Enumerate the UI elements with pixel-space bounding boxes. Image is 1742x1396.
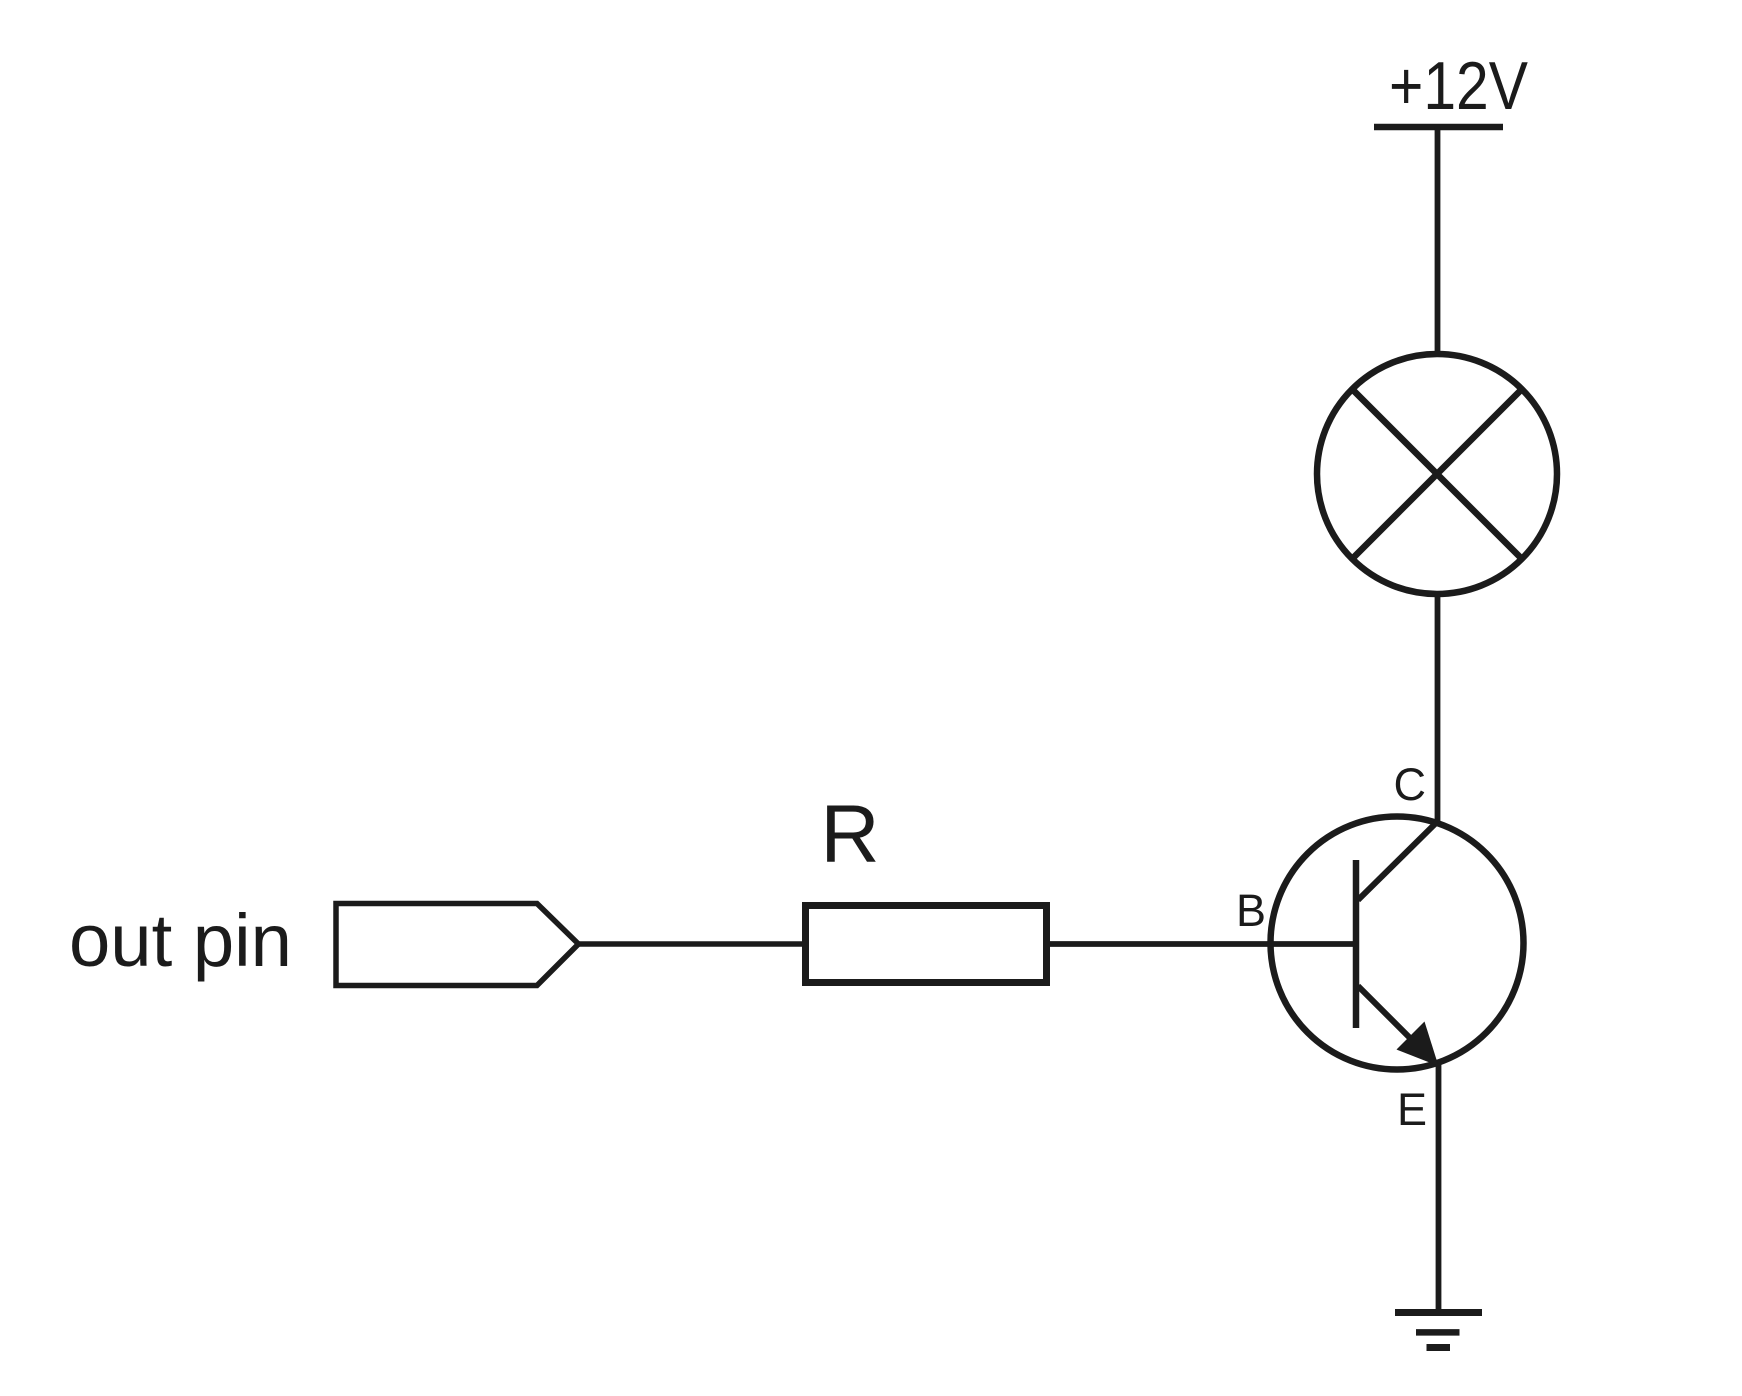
svg-text:+12V: +12V bbox=[1389, 48, 1529, 124]
transistor Q1 collector stroke bbox=[1358, 820, 1439, 900]
svg-text:out pin: out pin bbox=[69, 899, 292, 982]
svg-text:R: R bbox=[820, 789, 879, 880]
wire emitter to ground bbox=[1436, 1064, 1442, 1312]
power rail +12V bar bbox=[1374, 124, 1503, 131]
transistor Q1 base bar bbox=[1353, 860, 1360, 1028]
svg-text:C: C bbox=[1394, 759, 1427, 810]
transistor Q1 emitter stroke with arrow bbox=[1358, 986, 1439, 1066]
svg-text:B: B bbox=[1236, 885, 1266, 936]
wire rail to lamp bbox=[1435, 127, 1441, 354]
wire pin to resistor bbox=[579, 941, 806, 947]
resistor R bbox=[806, 906, 1047, 983]
out pin connector flag bbox=[336, 904, 579, 986]
ground bbox=[1395, 1313, 1482, 1348]
wire resistor to base bbox=[1047, 941, 1356, 947]
svg-text:E: E bbox=[1397, 1084, 1427, 1135]
lamp L1 bbox=[1317, 354, 1557, 594]
wire lamp to collector bbox=[1435, 594, 1441, 822]
transistor Q1 circle bbox=[1271, 817, 1524, 1070]
